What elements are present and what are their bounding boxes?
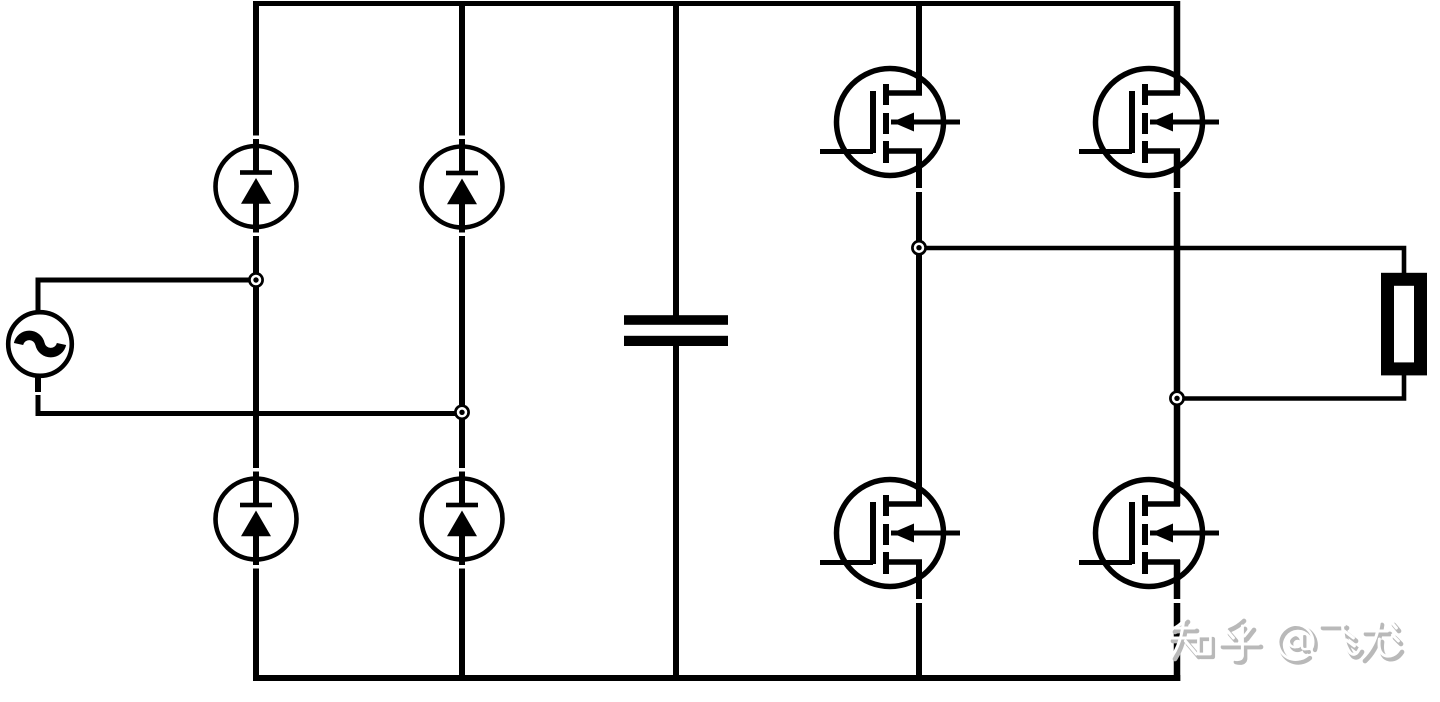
wire AC source top lead to node A <box>36 278 259 313</box>
wire inverter leg 1 (x=919) <box>916 1 922 681</box>
diode D2 <box>422 147 503 228</box>
wire AC source bottom lead to node B <box>35 376 465 416</box>
MOSFET Q3 <box>820 480 960 587</box>
watermark text zhihu @feilong <box>1170 618 1402 663</box>
diode D1 <box>216 146 297 227</box>
wire inverter output top to load <box>919 248 1404 274</box>
wire rectifier leg 2 (x=462) <box>459 1 465 681</box>
MOSFET Q4 <box>1079 480 1219 587</box>
capacitor C1 <box>624 315 728 346</box>
node D (inverter output bottom) <box>1170 392 1183 405</box>
wire inverter output bottom to load <box>1177 374 1404 399</box>
wire inverter leg 2 (x=1177) <box>1174 1 1181 681</box>
wire capacitor leg (x=676) <box>673 1 679 681</box>
diode D4 <box>422 479 503 560</box>
node A (AC to rectifier leg 1) <box>249 273 262 286</box>
MOSFET Q1 <box>820 69 960 176</box>
wire top bus <box>253 1 1180 6</box>
node B (AC to rectifier leg 2) <box>455 406 468 419</box>
MOSFET Q2 <box>1079 69 1219 176</box>
resistor R1 (load) <box>1388 279 1421 369</box>
wire rectifier leg 1 (x=256) <box>253 1 259 681</box>
node C (inverter output top) <box>912 241 925 254</box>
diode D3 <box>216 479 297 560</box>
wire bottom bus <box>253 675 1180 681</box>
AC source V1 <box>8 312 72 376</box>
